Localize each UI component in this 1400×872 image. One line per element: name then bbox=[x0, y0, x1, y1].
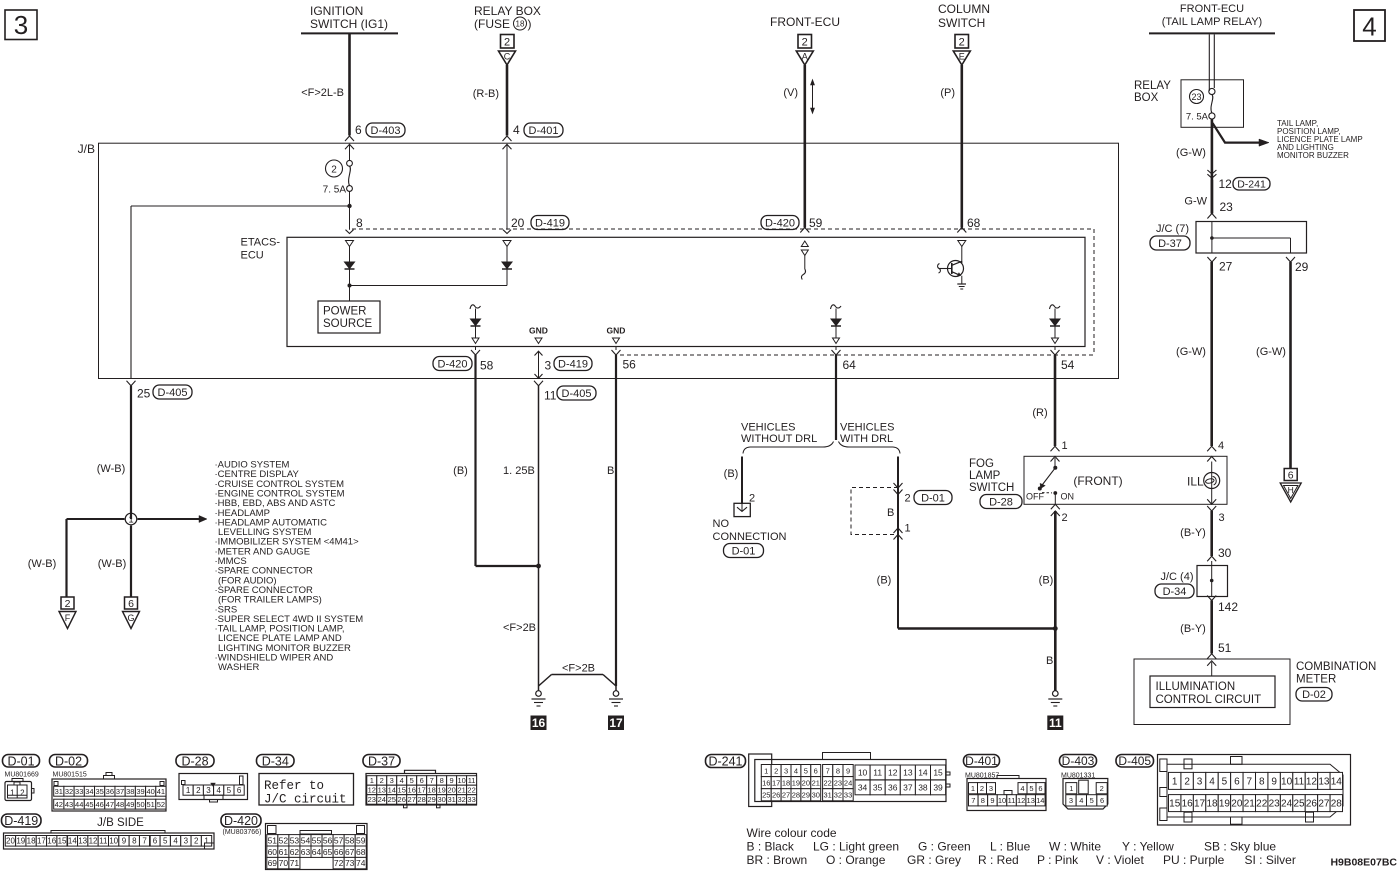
svg-text:G : Green: G : Green bbox=[918, 840, 971, 854]
svg-text:MONITOR BUZZER: MONITOR BUZZER bbox=[1277, 151, 1349, 160]
svg-text:39: 39 bbox=[933, 782, 943, 792]
pin 142 label bbox=[1218, 600, 1238, 614]
pin 29 label bbox=[1295, 260, 1309, 274]
svg-text:WASHER: WASHER bbox=[218, 662, 259, 673]
svg-text:D-37: D-37 bbox=[368, 754, 395, 768]
svg-text:<F>2B: <F>2B bbox=[503, 622, 536, 634]
svg-text:63: 63 bbox=[301, 847, 311, 857]
svg-text:4: 4 bbox=[1020, 784, 1024, 793]
svg-text:5: 5 bbox=[227, 786, 232, 795]
svg-text:B : Black: B : Black bbox=[747, 840, 795, 854]
svg-text:34: 34 bbox=[85, 787, 93, 796]
svg-text:2: 2 bbox=[802, 37, 808, 49]
svg-text:(G-W): (G-W) bbox=[1176, 147, 1206, 159]
connector D-420 label bbox=[221, 814, 261, 828]
svg-text:WITH DRL: WITH DRL bbox=[840, 433, 893, 445]
system list fed by fuse 2 bbox=[215, 460, 364, 674]
connector D-28 drawing bbox=[179, 774, 248, 803]
wire label <F>2B left bbox=[503, 622, 536, 634]
svg-text:36: 36 bbox=[888, 782, 898, 792]
svg-text:34: 34 bbox=[858, 782, 868, 792]
svg-text:24: 24 bbox=[844, 778, 852, 787]
split brace right bbox=[839, 442, 901, 454]
svg-text:BOX: BOX bbox=[1134, 92, 1159, 104]
svg-text:32: 32 bbox=[65, 787, 73, 796]
connector chevron at ETACS pin 59 bbox=[800, 228, 809, 233]
pin 23 label bbox=[1220, 200, 1234, 214]
svg-text:6: 6 bbox=[1038, 784, 1042, 793]
wire J/C4 to meter bbox=[1210, 601, 1213, 654]
svg-text:(G-W): (G-W) bbox=[1176, 346, 1206, 358]
connector chevron J/C4 in bbox=[1207, 556, 1216, 561]
connector D-37 label bbox=[363, 754, 400, 768]
connector D-28 label bbox=[176, 754, 214, 768]
svg-text:23: 23 bbox=[1191, 92, 1201, 102]
svg-text:4: 4 bbox=[1209, 777, 1215, 788]
svg-text:B: B bbox=[887, 507, 894, 519]
svg-text:2: 2 bbox=[1100, 784, 1104, 793]
svg-text:16: 16 bbox=[532, 716, 546, 730]
svg-text:13: 13 bbox=[78, 837, 87, 846]
connector D-01 drawing bbox=[5, 779, 34, 801]
svg-text:VEHICLES: VEHICLES bbox=[741, 422, 795, 434]
svg-text:10: 10 bbox=[1281, 777, 1293, 788]
connector chevrons at J/B pin 6 bbox=[345, 136, 354, 149]
svg-text:19: 19 bbox=[792, 778, 800, 787]
fog switch lever bbox=[1038, 458, 1058, 491]
svg-text:GND: GND bbox=[607, 326, 626, 336]
svg-text:W : White: W : White bbox=[1049, 840, 1101, 854]
svg-text:11: 11 bbox=[1008, 796, 1016, 805]
svg-text:(B): (B) bbox=[453, 465, 468, 477]
svg-text:4: 4 bbox=[513, 123, 520, 137]
svg-text:49: 49 bbox=[126, 800, 134, 809]
terminal A from front-ecu bbox=[796, 35, 813, 66]
connector chevrons fog pin3 bbox=[1207, 499, 1216, 511]
wire label (V) bbox=[783, 87, 798, 99]
svg-text:69: 69 bbox=[268, 858, 278, 868]
svg-text:ON: ON bbox=[1061, 492, 1075, 502]
connector D-401 label bbox=[964, 754, 1000, 768]
svg-text:2: 2 bbox=[504, 37, 510, 49]
fog switch ON label bbox=[1061, 492, 1075, 502]
svg-text:6: 6 bbox=[1100, 796, 1104, 805]
svg-text:E: E bbox=[959, 52, 965, 62]
svg-text:PU : Purple: PU : Purple bbox=[1163, 853, 1225, 867]
svg-text:20: 20 bbox=[6, 837, 15, 846]
wire pin 56 down bbox=[615, 355, 617, 686]
junction connector J/C(4) box bbox=[1197, 566, 1228, 597]
svg-text:NO: NO bbox=[713, 518, 730, 530]
connector chevron 11 D-405 bbox=[534, 381, 596, 403]
output triangle above pin bbox=[472, 338, 479, 344]
svg-text:21: 21 bbox=[1244, 799, 1256, 810]
diode D2 pin 20 bbox=[502, 247, 512, 270]
FOG LAMP SWITCH label bbox=[969, 458, 1014, 494]
svg-text:56: 56 bbox=[323, 835, 333, 845]
svg-text:J/C circuit: J/C circuit bbox=[264, 793, 347, 807]
svg-text:6: 6 bbox=[128, 598, 134, 610]
J/C (4) label bbox=[1161, 571, 1194, 583]
svg-text:10: 10 bbox=[858, 767, 868, 777]
svg-text:H9B08E07BC: H9B08E07BC bbox=[1330, 857, 1397, 869]
no connection terminal bbox=[734, 503, 750, 516]
svg-text:D-419: D-419 bbox=[535, 217, 565, 229]
svg-text:1: 1 bbox=[1069, 784, 1073, 793]
svg-text:ILL: ILL bbox=[1187, 475, 1204, 489]
svg-text:(MU803766): (MU803766) bbox=[223, 829, 262, 836]
pin 27 label bbox=[1219, 260, 1233, 274]
svg-text:59: 59 bbox=[356, 835, 366, 845]
front-ecu header bbox=[770, 15, 840, 29]
svg-text:2: 2 bbox=[905, 493, 911, 505]
vehicles with drl label bbox=[840, 422, 894, 445]
svg-text:27: 27 bbox=[1219, 260, 1233, 274]
svg-text:18: 18 bbox=[27, 837, 36, 846]
svg-text:1: 1 bbox=[905, 523, 911, 535]
svg-text:): ) bbox=[528, 17, 532, 31]
wire label (R) bbox=[1032, 407, 1047, 419]
connector chevron pin 58 bbox=[471, 347, 480, 356]
svg-text:(W-B): (W-B) bbox=[98, 558, 127, 570]
svg-text:39: 39 bbox=[136, 787, 144, 796]
svg-text:L : Blue: L : Blue bbox=[990, 840, 1031, 854]
svg-text:18: 18 bbox=[782, 778, 790, 787]
svg-text:64: 64 bbox=[843, 358, 857, 372]
svg-text:5: 5 bbox=[410, 776, 414, 785]
svg-text:D-401: D-401 bbox=[529, 125, 559, 137]
svg-text:29: 29 bbox=[802, 790, 810, 799]
svg-text:RELAY: RELAY bbox=[1134, 80, 1171, 92]
connector chevron fog pin1 bbox=[1051, 446, 1060, 451]
connector 4 D-401 label bbox=[513, 123, 563, 137]
svg-text:D-01: D-01 bbox=[921, 492, 945, 504]
diode D5 with curl bbox=[1050, 305, 1061, 338]
wire label B drl bbox=[887, 507, 894, 519]
svg-text:37: 37 bbox=[116, 787, 124, 796]
svg-text:15: 15 bbox=[398, 786, 406, 795]
svg-text:47: 47 bbox=[106, 800, 114, 809]
connector D-34 refer box bbox=[259, 774, 354, 807]
svg-text:10: 10 bbox=[998, 796, 1006, 805]
svg-text:3: 3 bbox=[206, 786, 211, 795]
svg-text:(TAIL LAMP RELAY): (TAIL LAMP RELAY) bbox=[1162, 16, 1262, 28]
svg-text:15: 15 bbox=[58, 837, 67, 846]
svg-text:POWER: POWER bbox=[323, 306, 366, 318]
connector 1 label bbox=[905, 523, 911, 535]
junction connector J/C(7) box bbox=[1196, 222, 1307, 254]
svg-text:D-419: D-419 bbox=[558, 358, 588, 370]
svg-text:CONNECTION: CONNECTION bbox=[713, 531, 787, 543]
svg-text:2: 2 bbox=[1062, 512, 1068, 524]
dashed option box bbox=[851, 488, 898, 535]
connector chevron pin 56 bbox=[612, 347, 621, 356]
svg-text:16: 16 bbox=[762, 778, 770, 787]
svg-text:42: 42 bbox=[55, 800, 63, 809]
wire column switch to ETACS pin 68 bbox=[960, 65, 963, 228]
connector 2 D-01 label bbox=[905, 491, 953, 505]
svg-text:D-405: D-405 bbox=[562, 388, 592, 400]
svg-text:J/C (4): J/C (4) bbox=[1161, 571, 1194, 583]
junction block J/B box bbox=[99, 143, 1119, 378]
wire fuse to pin 25 branch bbox=[131, 206, 350, 379]
svg-text:23: 23 bbox=[368, 795, 376, 804]
svg-text:2: 2 bbox=[1184, 777, 1190, 788]
svg-text:3: 3 bbox=[1219, 512, 1225, 524]
svg-text:58: 58 bbox=[345, 835, 355, 845]
svg-text:41: 41 bbox=[157, 787, 165, 796]
svg-text:11: 11 bbox=[468, 776, 476, 785]
svg-text:1: 1 bbox=[128, 515, 133, 526]
svg-text:O : Orange: O : Orange bbox=[826, 853, 886, 867]
svg-text:23: 23 bbox=[834, 778, 842, 787]
wire branch without drl bbox=[741, 457, 743, 505]
wire label <F>2B bridge bbox=[562, 663, 595, 675]
svg-text:32: 32 bbox=[457, 795, 465, 804]
wire fog pin2 to ground bbox=[1054, 511, 1057, 691]
connector 64 label bbox=[843, 358, 857, 372]
svg-text:21: 21 bbox=[457, 786, 465, 795]
connector D-34 label bbox=[1155, 584, 1194, 598]
svg-text:SI : Silver: SI : Silver bbox=[1245, 853, 1296, 867]
svg-text:30: 30 bbox=[812, 790, 820, 799]
svg-text:27: 27 bbox=[782, 790, 790, 799]
svg-text:1: 1 bbox=[971, 784, 975, 793]
wire pin 58 down bbox=[476, 355, 539, 566]
svg-text:2: 2 bbox=[380, 776, 384, 785]
svg-text:D-37: D-37 bbox=[1158, 238, 1182, 250]
wire IG1 to J/B pin 6 bbox=[348, 34, 351, 136]
wire label (B-Y) upper bbox=[1180, 527, 1206, 539]
svg-text:(V): (V) bbox=[783, 87, 798, 99]
connector D-403 label bbox=[1060, 754, 1097, 768]
svg-text:28: 28 bbox=[418, 795, 426, 804]
svg-text:24: 24 bbox=[1281, 799, 1293, 810]
svg-text:38: 38 bbox=[918, 782, 928, 792]
connector chevron pin 29 bbox=[1286, 257, 1295, 262]
svg-text:54: 54 bbox=[301, 835, 311, 845]
svg-text:FRONT-ECU: FRONT-ECU bbox=[770, 15, 840, 29]
svg-text:2: 2 bbox=[959, 37, 965, 49]
GND label pin 3 bbox=[529, 326, 548, 336]
ground box 17 bbox=[608, 716, 624, 731]
wire label (G-W) 29 bbox=[1256, 346, 1286, 358]
wire drl to ground join bbox=[898, 627, 1055, 630]
svg-text:4: 4 bbox=[400, 776, 404, 785]
svg-text:2: 2 bbox=[774, 766, 778, 775]
ignition switch header bbox=[301, 4, 398, 33]
wire front-ecu to ETACS pin 59 bbox=[803, 65, 806, 228]
svg-text:40: 40 bbox=[147, 787, 155, 796]
svg-text:1: 1 bbox=[204, 837, 209, 846]
svg-text:8: 8 bbox=[981, 796, 985, 805]
connector 20 D-419 label bbox=[511, 216, 569, 231]
illumination lamp bbox=[1204, 473, 1220, 489]
wire label (P) bbox=[940, 87, 955, 99]
svg-text:1: 1 bbox=[186, 786, 191, 795]
connector chevrons 12 D-241 bbox=[1207, 170, 1216, 178]
wire label (R-B) bbox=[473, 88, 499, 100]
svg-text:18: 18 bbox=[427, 786, 435, 795]
svg-text:22: 22 bbox=[824, 778, 832, 787]
J/C7 internal wiring bbox=[1210, 222, 1290, 254]
connector D-01 label bbox=[3, 754, 40, 768]
connector chevron meter in bbox=[1207, 654, 1216, 666]
svg-text:26: 26 bbox=[772, 790, 780, 799]
fog switch pin 1 label bbox=[1062, 440, 1068, 452]
io triangles pin 59 bbox=[801, 241, 808, 256]
svg-text:6: 6 bbox=[355, 123, 362, 137]
svg-text:61: 61 bbox=[279, 847, 289, 857]
svg-text:57: 57 bbox=[334, 835, 344, 845]
svg-text:D-01: D-01 bbox=[732, 545, 756, 557]
ETACS-ECU dashed connector right edge bbox=[1093, 229, 1095, 355]
connector D-02 label bbox=[50, 754, 88, 768]
connector D-34 label bbox=[257, 754, 295, 768]
wire branch left W-B bbox=[65, 519, 67, 597]
svg-text:1: 1 bbox=[10, 789, 15, 798]
svg-text:MU801669: MU801669 bbox=[5, 772, 39, 779]
svg-text:51: 51 bbox=[268, 835, 278, 845]
svg-text:P : Pink: P : Pink bbox=[1037, 853, 1079, 867]
svg-text:5: 5 bbox=[163, 837, 168, 846]
wire label (G-W) 27 bbox=[1176, 346, 1206, 358]
svg-text:7: 7 bbox=[826, 766, 830, 775]
svg-text:4: 4 bbox=[1079, 796, 1083, 805]
svg-text:20: 20 bbox=[511, 216, 525, 230]
svg-text:D-241: D-241 bbox=[1237, 179, 1266, 191]
wire label B ground11 bbox=[1046, 655, 1053, 667]
svg-text:4: 4 bbox=[1218, 440, 1224, 452]
wire fog pin2 inside bbox=[1054, 493, 1056, 504]
svg-text:GND: GND bbox=[529, 326, 548, 336]
wire label (B) pin58 bbox=[453, 465, 468, 477]
svg-text:25: 25 bbox=[762, 790, 770, 799]
connector chevron pin 54 bbox=[1051, 347, 1060, 356]
svg-text:3: 3 bbox=[1069, 796, 1073, 805]
RELAY BOX label bbox=[1134, 80, 1171, 104]
terminal E from column switch bbox=[953, 35, 970, 66]
svg-text:1. 25B: 1. 25B bbox=[503, 465, 535, 477]
svg-text:D-420: D-420 bbox=[765, 217, 795, 229]
svg-text:5: 5 bbox=[1222, 777, 1228, 788]
ILL label bbox=[1187, 475, 1204, 489]
wire label (B) fogoff bbox=[1039, 575, 1054, 587]
svg-text:66: 66 bbox=[334, 847, 344, 857]
svg-text:WITHOUT DRL: WITHOUT DRL bbox=[741, 433, 817, 445]
svg-text:50: 50 bbox=[136, 800, 144, 809]
connector D-241 label bbox=[706, 755, 746, 769]
output triangle above pin bbox=[1052, 338, 1059, 344]
svg-text:OFF: OFF bbox=[1026, 492, 1044, 502]
chevron inside fog box pin4 bbox=[1207, 457, 1216, 462]
wire label (B) nc bbox=[724, 468, 739, 480]
svg-text:(FRONT): (FRONT) bbox=[1073, 474, 1122, 488]
wire pin 3/11 down bbox=[538, 386, 540, 686]
svg-text:9: 9 bbox=[846, 766, 850, 775]
ground box 11 bbox=[1047, 716, 1063, 731]
input triangle pin 68 bbox=[958, 241, 966, 247]
page number box 4 bbox=[1354, 10, 1385, 42]
svg-text:2: 2 bbox=[331, 165, 337, 176]
wire diode2 to junction bbox=[350, 270, 508, 286]
connector chevron J/C7 in bbox=[1207, 214, 1216, 219]
svg-text:R : Red: R : Red bbox=[978, 853, 1019, 867]
svg-text:Y : Yellow: Y : Yellow bbox=[1122, 840, 1174, 854]
svg-text:6: 6 bbox=[420, 776, 424, 785]
svg-text:B: B bbox=[607, 465, 614, 477]
wire label (W-B) left bbox=[28, 558, 57, 570]
connector chevrons fog pin2 bbox=[1051, 504, 1060, 516]
svg-text:54: 54 bbox=[1061, 358, 1075, 372]
ETACS-ECU dashed connector line top bbox=[352, 228, 1094, 230]
svg-text:3: 3 bbox=[14, 10, 28, 40]
connector 56 label bbox=[623, 358, 637, 372]
svg-text:35: 35 bbox=[95, 787, 103, 796]
svg-text:33: 33 bbox=[467, 795, 475, 804]
connector 12 D-241 label bbox=[1219, 177, 1271, 191]
branch arrow to tail lamps bbox=[1213, 123, 1270, 146]
svg-text:11: 11 bbox=[1049, 716, 1062, 730]
svg-text:5: 5 bbox=[1090, 796, 1094, 805]
fog pin 3 label bbox=[1219, 512, 1225, 524]
svg-text:2: 2 bbox=[65, 598, 71, 610]
svg-text:(P): (P) bbox=[940, 87, 955, 99]
svg-text:8: 8 bbox=[836, 766, 840, 775]
svg-text:12: 12 bbox=[368, 786, 376, 795]
COMBINATION METER label bbox=[1296, 661, 1376, 686]
svg-text:17: 17 bbox=[418, 786, 426, 795]
svg-text:67: 67 bbox=[345, 847, 355, 857]
svg-text:D-28: D-28 bbox=[181, 754, 208, 768]
svg-text:8: 8 bbox=[356, 216, 363, 230]
connector D-37 label bbox=[1150, 236, 1190, 250]
svg-text:14: 14 bbox=[1036, 796, 1044, 805]
svg-text:4: 4 bbox=[1362, 12, 1376, 42]
combination meter box bbox=[1134, 659, 1290, 725]
ground 11 bbox=[1048, 691, 1062, 706]
wire fuse23 out bbox=[1211, 119, 1214, 213]
svg-text:7: 7 bbox=[1247, 777, 1253, 788]
svg-text:16: 16 bbox=[1182, 799, 1194, 810]
chevron inside fog box pin1 bbox=[1051, 457, 1060, 462]
svg-text:(B-Y): (B-Y) bbox=[1180, 623, 1206, 635]
connector D-401 drawing bbox=[967, 776, 1046, 811]
wire pin 54 to fog switch bbox=[1054, 355, 1057, 446]
junction circle 1 bbox=[67, 513, 208, 526]
wire pin 29 down bbox=[1289, 262, 1292, 468]
svg-text:11: 11 bbox=[873, 767, 882, 777]
svg-text:SWITCH: SWITCH bbox=[938, 16, 985, 30]
connector D-02 part number bbox=[53, 772, 87, 779]
svg-text:V : Violet: V : Violet bbox=[1096, 853, 1144, 867]
diode D3 with curl bbox=[470, 305, 481, 338]
svg-text:<F>2B: <F>2B bbox=[562, 663, 595, 675]
svg-text:7. 5A: 7. 5A bbox=[323, 185, 347, 196]
J/B label bbox=[78, 142, 95, 156]
wire label 1.25B bbox=[503, 465, 535, 477]
svg-text:70: 70 bbox=[279, 858, 289, 868]
svg-text:25: 25 bbox=[388, 795, 396, 804]
svg-text:(W-B): (W-B) bbox=[28, 558, 57, 570]
svg-text:D-01: D-01 bbox=[7, 754, 34, 768]
svg-text:LG : Light green: LG : Light green bbox=[813, 840, 899, 854]
svg-text:62: 62 bbox=[290, 847, 300, 857]
svg-text:4: 4 bbox=[794, 766, 798, 775]
svg-text:19: 19 bbox=[1219, 799, 1231, 810]
svg-text:ECU: ECU bbox=[241, 250, 264, 262]
connector chevron pin 64 bbox=[832, 347, 841, 356]
